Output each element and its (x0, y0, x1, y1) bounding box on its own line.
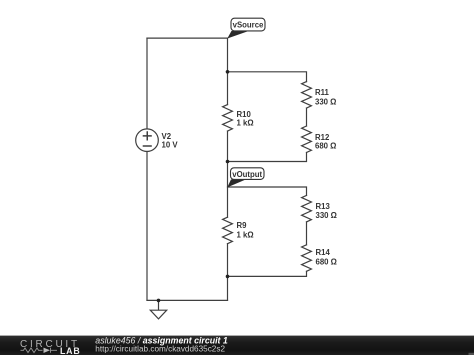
wire left vertical lower (146, 152, 148, 301)
wire middle vertical center (227, 131, 229, 217)
svg-text:R13: R13 (316, 202, 331, 211)
svg-text:680 Ω: 680 Ω (315, 142, 336, 151)
node vOutput flag pointer (227, 179, 246, 187)
resistor R13 (302, 195, 312, 221)
svg-text:http://circuitlab.com/ckavdd63: http://circuitlab.com/ckavdd635c2s2 (95, 344, 225, 353)
svg-text:R14: R14 (316, 248, 331, 257)
voltage source V2 circle (136, 129, 159, 152)
CircuitLab logo diode arrow (44, 348, 51, 353)
svg-text:R9: R9 (237, 221, 248, 230)
wire top horizontal (147, 37, 228, 39)
wire branch1 mid (306, 108, 308, 126)
resistor R12 (302, 126, 312, 152)
node vSource flag pointer (227, 31, 249, 39)
wire middle vertical lower (227, 244, 229, 301)
voltage source V2 minus sign (143, 145, 152, 147)
node vSource flag box (231, 18, 265, 31)
svg-text:1 kΩ: 1 kΩ (237, 119, 254, 128)
resistor R14 (302, 245, 312, 271)
wire branch1 top (228, 72, 307, 82)
wire bottom horizontal (147, 299, 228, 301)
svg-text:R11: R11 (315, 88, 330, 97)
wire left vertical upper (146, 38, 148, 129)
node junction dot lower (226, 275, 230, 279)
node junction dot top (226, 70, 230, 74)
ground triangle (150, 310, 166, 319)
wire branch2 mid (306, 222, 308, 245)
CircuitLab logo resistor-diode glyph (21, 348, 58, 353)
svg-text:330 Ω: 330 Ω (316, 211, 337, 220)
svg-text:vSource: vSource (233, 21, 264, 30)
node vOutput flag box (231, 168, 265, 180)
voltage source V2 plus sign (143, 131, 152, 146)
resistor R10 (223, 105, 233, 132)
svg-text:R12: R12 (315, 133, 330, 142)
svg-text:680 Ω: 680 Ω (316, 258, 337, 267)
resistor R9 (223, 217, 233, 243)
node junction dot ground (157, 299, 161, 303)
wire branch1 bottom (228, 153, 307, 162)
wire middle vertical upper (227, 38, 229, 105)
footer resize nub (469, 353, 474, 355)
footer bar (0, 336, 474, 355)
resistor R11 (302, 82, 312, 109)
svg-text:1 kΩ: 1 kΩ (237, 230, 254, 239)
node junction dot middle (226, 160, 230, 164)
svg-text:330 Ω: 330 Ω (315, 98, 336, 107)
svg-text:vOutput: vOutput (232, 170, 262, 179)
wire branch2 top (228, 187, 307, 195)
ground stem (158, 300, 160, 309)
wire branch2 bottom (228, 271, 307, 276)
svg-text:LAB: LAB (60, 346, 80, 355)
svg-text:10 V: 10 V (162, 140, 179, 149)
